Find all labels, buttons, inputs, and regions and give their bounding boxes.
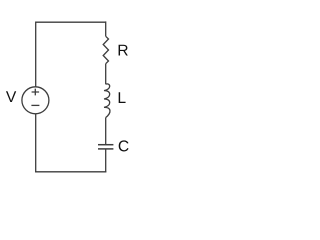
label C <box>119 140 129 151</box>
wire bottom <box>35 171 106 173</box>
wire right top <box>105 21 107 36</box>
wire left upper <box>35 22 37 88</box>
label V <box>6 91 16 102</box>
wire top <box>36 21 106 23</box>
wire R to L <box>105 64 107 85</box>
voltage source V circle <box>22 87 49 114</box>
wire L to C <box>105 118 107 145</box>
label R <box>119 45 128 56</box>
wire C to bottom <box>105 149 107 173</box>
capacitor C top plate <box>98 144 113 146</box>
inductor L <box>104 84 110 118</box>
capacitor C bottom plate <box>98 148 113 150</box>
source plus sign <box>32 89 39 96</box>
wire left lower <box>35 114 37 173</box>
label L <box>119 92 126 103</box>
resistor R <box>103 36 108 63</box>
source minus sign <box>31 104 39 106</box>
